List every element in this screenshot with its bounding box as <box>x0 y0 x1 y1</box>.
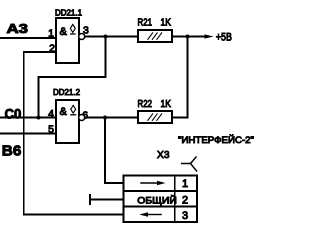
wire C0 to DD21.2 pin4 <box>0 117 56 119</box>
+5B arrow <box>188 36 207 38</box>
junction dot output DD21.2 <box>103 116 107 120</box>
wire A3 to DD21.1 pin1 <box>0 37 56 39</box>
svg-text:R21: R21 <box>138 18 153 29</box>
svg-text:1: 1 <box>48 28 54 40</box>
wire B6 net: DD21.1 pin2, down to connector row3 <box>24 52 124 215</box>
open collector diamond DD21.1 <box>70 24 75 32</box>
svg-text:1K: 1K <box>161 99 172 110</box>
wire pin5 from left edge <box>0 133 56 135</box>
connector X3 table <box>123 175 197 222</box>
inversion bubble DD21.1 <box>79 34 85 40</box>
wire feedback: output node down-left to C0 line <box>39 37 106 118</box>
junction dot +5B <box>186 35 190 39</box>
op-amp U1 : logic gate DD21.1 box <box>56 18 79 63</box>
wire common to connector row2 <box>90 199 123 201</box>
op-amp U2 : logic gate DD21.2 box <box>56 100 79 143</box>
svg-text:A3: A3 <box>7 21 29 36</box>
svg-text:&: & <box>60 106 68 118</box>
svg-text:X3: X3 <box>157 149 170 161</box>
svg-text:B6: B6 <box>2 142 22 159</box>
pin 3 row arrow <box>147 214 162 216</box>
open collector diamond DD21.2 <box>71 105 76 113</box>
svg-text:1: 1 <box>182 178 188 190</box>
connector pin symbol X3 <box>181 157 197 172</box>
pin 1 row arrow <box>140 182 158 184</box>
svg-text:2: 2 <box>49 43 55 55</box>
svg-text:5: 5 <box>48 124 54 136</box>
inversion bubble DD21.2 <box>79 115 85 121</box>
wire DD21.2 output to R22 <box>85 117 139 119</box>
svg-text:3: 3 <box>182 210 188 222</box>
svg-text:R22: R22 <box>138 99 153 110</box>
svg-text:DD21.2: DD21.2 <box>53 87 80 97</box>
resistor R22 <box>138 111 172 123</box>
svg-text:4: 4 <box>48 108 54 120</box>
svg-text:&: & <box>60 26 68 38</box>
wire DD21.1 output to R21 <box>85 36 139 38</box>
svg-text:"ИНТЕРФЕЙС-2": "ИНТЕРФЕЙС-2" <box>178 134 254 146</box>
junction dot on C0 line <box>37 116 41 120</box>
svg-text:C0: C0 <box>5 105 22 121</box>
svg-text:DD21.1: DD21.1 <box>55 8 82 18</box>
wire R21 right to +5B node <box>172 36 188 38</box>
junction dot output DD21.1 <box>104 35 108 39</box>
svg-text:2: 2 <box>182 194 188 206</box>
wire output DD21.2 down to connector row1 <box>105 118 123 184</box>
svg-text:ОБЩИЙ: ОБЩИЙ <box>137 194 177 206</box>
svg-text:+5B: +5B <box>216 32 232 44</box>
common terminal T-bar <box>89 194 91 205</box>
resistor R21 <box>138 30 172 42</box>
svg-text:1K: 1K <box>161 18 172 29</box>
wire +5B rail down to R22 <box>172 37 188 118</box>
